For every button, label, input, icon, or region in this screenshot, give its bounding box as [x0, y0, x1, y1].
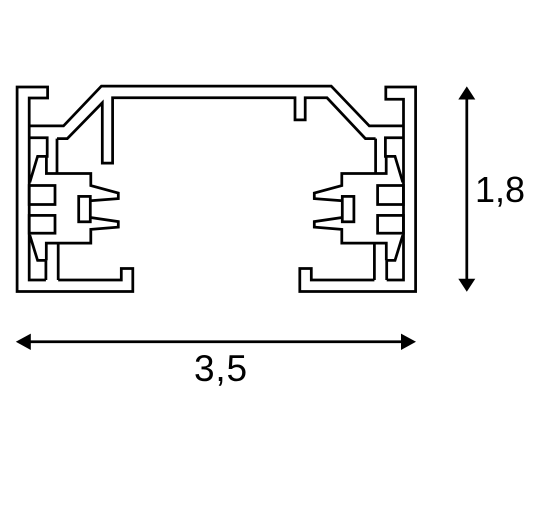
roof: hook shelves, outer diagonals, raised center top: [29, 86, 403, 126]
left housing upper: flap wall, top, right wall, tooth 1: [46, 156, 118, 200]
vertical dimension line: [465, 97, 468, 281]
horizontal dimension line: [28, 340, 404, 343]
left wall contact rect 1: [29, 186, 55, 205]
right slot right wall (upper): [374, 139, 377, 174]
right slot lower right wall (mirror): [373, 243, 376, 280]
left housing lower: flap wall, bottom, tooth 2: [46, 218, 118, 261]
right wall contact rect 2: [378, 215, 404, 233]
left slot right wall (upper): [56, 139, 59, 174]
left bottom flap + slot lower wall: [30, 235, 47, 280]
right center contact box: [342, 196, 354, 221]
right housing lower (mirror): [314, 218, 386, 261]
horizontal dimension arrowhead left: [16, 334, 31, 350]
right shelf, slot upper wall, flap, flap diagonal (mirror): [385, 138, 403, 183]
right wall contact rect 1: [378, 186, 404, 205]
dimension text 1,8: [475, 169, 525, 211]
horizontal dimension arrowhead right: [401, 334, 416, 350]
right housing upper (mirror): [314, 156, 386, 200]
vertical dimension arrowhead top: [458, 86, 475, 99]
inner ceiling with hanging fin (left), center notch, inner diagonals: [57, 98, 376, 163]
left slot lower right wall: [57, 243, 60, 280]
vertical dimension arrowhead bottom: [458, 279, 475, 292]
left center contact box: [79, 196, 91, 221]
left shelf, slot upper wall, flap, flap diagonal: [29, 138, 47, 183]
right wall + hook slot + floor + lip: main right contour (mirror): [300, 87, 416, 292]
left wall + hook slot + floor + lip: main left contour: [17, 87, 133, 292]
dimension text 3,5: [194, 348, 248, 390]
left wall contact rect 2: [29, 215, 55, 233]
right bottom flap + slot lower wall (mirror): [386, 235, 403, 280]
